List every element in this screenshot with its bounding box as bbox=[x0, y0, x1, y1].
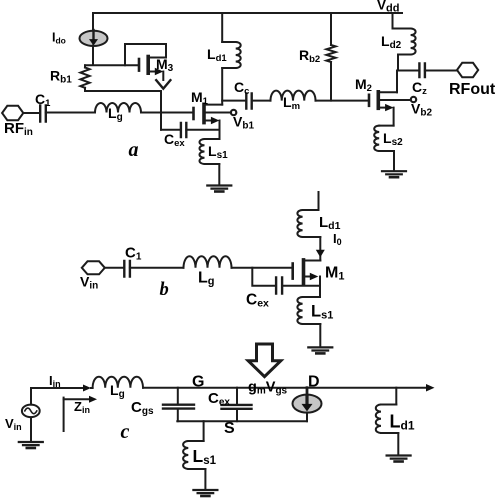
controlled source gmVgs (gray ellipse with down arrow) bbox=[306, 388, 309, 395]
resistor Rb1 bbox=[84, 65, 86, 67]
transistor M2 bbox=[368, 95, 371, 106]
svg-text:Ld1: Ld1 bbox=[207, 46, 227, 64]
inductor Ld1 (b) bbox=[303, 210, 321, 237]
svg-text:M1: M1 bbox=[325, 265, 344, 283]
wire: M1 source down bbox=[219, 121, 221, 140]
Zin indicator arrow bbox=[63, 398, 65, 431]
svg-text:Cex: Cex bbox=[208, 390, 230, 408]
svg-text:Cz: Cz bbox=[412, 79, 427, 97]
resistor Rb2 bbox=[330, 13, 332, 45]
port RFin (hexagon) bbox=[2, 106, 23, 120]
svg-text:Lg: Lg bbox=[110, 382, 125, 400]
svg-text:Ld2: Ld2 bbox=[381, 33, 402, 51]
inductor Lg (c) bbox=[93, 377, 143, 388]
wire + current arrow I0 bbox=[319, 237, 321, 261]
svg-text:Rb2: Rb2 bbox=[299, 47, 320, 65]
inductor Ld2 bbox=[392, 13, 394, 29]
ground below Ls1 (c) bbox=[193, 489, 217, 491]
svg-text:Vin: Vin bbox=[80, 274, 98, 292]
wire: S bottom line bbox=[177, 420, 307, 422]
wire: Lg to M1 gate (b) bbox=[232, 267, 293, 269]
wire: C1 to Lg (b) bbox=[130, 267, 184, 269]
svg-text:M3: M3 bbox=[156, 56, 174, 74]
wire: RFin to C1 bbox=[23, 112, 38, 114]
svg-text:Rb1: Rb1 bbox=[50, 68, 72, 86]
svg-text:Ld1: Ld1 bbox=[390, 412, 415, 433]
ground below Ls2 bbox=[382, 170, 406, 172]
svg-text:Ld1: Ld1 bbox=[319, 214, 341, 232]
inductor Ls1 (b) bbox=[303, 297, 321, 324]
transistor M1 (b) bbox=[305, 260, 320, 262]
wire: Vdd top supply rail bbox=[93, 12, 402, 14]
terminal Vb1 (circle) bbox=[231, 110, 236, 115]
terminal Vb2 (circle) bbox=[411, 97, 416, 102]
svg-text:C1: C1 bbox=[125, 245, 142, 263]
svg-text:D: D bbox=[308, 374, 320, 391]
wire: rail down to current source Ido bbox=[92, 13, 94, 31]
capacitor Cgs branch bbox=[177, 388, 179, 405]
inductor Ls1 (a) bbox=[205, 139, 220, 164]
inductor Lg (b) bbox=[184, 256, 232, 268]
svg-text:Ls1: Ls1 bbox=[193, 446, 217, 467]
capacitor Cex (a) bbox=[161, 129, 179, 131]
svg-text:Lg: Lg bbox=[108, 105, 123, 123]
wire: M2 drain to output node bbox=[396, 71, 398, 93]
svg-text:Cex: Cex bbox=[164, 131, 185, 149]
svg-text:Zin: Zin bbox=[74, 399, 90, 415]
inductor Ls2 bbox=[393, 108, 395, 126]
ground below Ld1 (c) bbox=[387, 454, 411, 456]
svg-text:Vb1: Vb1 bbox=[233, 114, 254, 132]
wire: top line to output arrow (c) bbox=[143, 387, 427, 389]
svg-text:Cgs: Cgs bbox=[131, 399, 154, 417]
svg-text:M2: M2 bbox=[355, 76, 372, 94]
ground below Vin (c) bbox=[19, 441, 43, 443]
svg-text:I0: I0 bbox=[333, 231, 342, 247]
svg-text:RFout: RFout bbox=[449, 81, 496, 98]
inductor Lm bbox=[271, 91, 316, 101]
wire: M1 source down (b) bbox=[319, 277, 321, 298]
svg-text:Ls1: Ls1 bbox=[208, 143, 228, 161]
capacitor C1 bbox=[40, 106, 46, 122]
wire: M1 drain up / inductor Ld1 branch bbox=[221, 13, 223, 105]
inductor Ld1 (c) bbox=[395, 388, 397, 405]
svg-text:Vdd: Vdd bbox=[377, 0, 399, 15]
big hollow arrow between (b) and (c) bbox=[248, 344, 281, 377]
ground below Ls1 (b) bbox=[308, 346, 332, 348]
svg-text:G: G bbox=[192, 374, 204, 391]
port RFout (hexagon) bbox=[457, 63, 478, 77]
wire: Vin to C1 (b) bbox=[105, 267, 123, 269]
svg-text:a: a bbox=[129, 139, 139, 161]
source Vin (c): sine generator bbox=[30, 388, 32, 405]
svg-text:Ido: Ido bbox=[52, 31, 66, 46]
svg-text:c: c bbox=[121, 421, 130, 443]
svg-text:Vin: Vin bbox=[5, 416, 22, 432]
svg-text:Ls2: Ls2 bbox=[383, 130, 403, 148]
M3 source down wire with open arrow bbox=[162, 72, 164, 81]
inductor Lg bbox=[95, 103, 141, 113]
wire: Ido to bias node bbox=[85, 46, 139, 66]
svg-text:Vb2: Vb2 bbox=[411, 101, 432, 119]
capacitor C1 (b) bbox=[124, 261, 130, 277]
wire: Lm to M2 gate bbox=[316, 100, 370, 102]
wire: Rb1 bottom bias line to gate node bbox=[85, 91, 161, 130]
svg-text:M1: M1 bbox=[191, 89, 209, 107]
wire: input with current arrow Iin bbox=[31, 387, 84, 389]
capacitor Cz bbox=[397, 70, 418, 72]
svg-text:Cex: Cex bbox=[246, 292, 269, 310]
wire: C1 to Lg bbox=[46, 112, 95, 114]
svg-text:C1: C1 bbox=[35, 91, 51, 109]
svg-text:Iin: Iin bbox=[49, 373, 61, 389]
transistor M3 (diode-connected) bbox=[125, 44, 166, 65]
capacitor Cex (b) bbox=[252, 268, 274, 286]
wire: Lg to M1 gate bbox=[141, 112, 194, 114]
svg-text:Ls1: Ls1 bbox=[311, 303, 333, 322]
supply stub (b) bbox=[318, 192, 320, 210]
transistor M1 bbox=[192, 108, 195, 119]
port Vin (b) hexagon bbox=[82, 261, 105, 274]
svg-text:Lg: Lg bbox=[198, 270, 215, 288]
svg-text:RFin: RFin bbox=[4, 120, 33, 138]
capacitor Cc tap bbox=[222, 100, 245, 102]
svg-text:b: b bbox=[160, 280, 169, 300]
svg-text:Cc: Cc bbox=[234, 79, 249, 97]
svg-text:S: S bbox=[224, 420, 235, 437]
inductor Ld1 bbox=[222, 42, 236, 68]
svg-text:gmVgs: gmVgs bbox=[248, 380, 288, 397]
svg-text:Lm: Lm bbox=[283, 94, 300, 112]
ground below Ls1 (a) bbox=[207, 184, 231, 186]
capacitor Cex branch (c) bbox=[236, 388, 238, 405]
current source Ido (gray ellipse with down arrow) bbox=[80, 31, 108, 46]
inductor Ls1 (c) bbox=[203, 421, 205, 441]
